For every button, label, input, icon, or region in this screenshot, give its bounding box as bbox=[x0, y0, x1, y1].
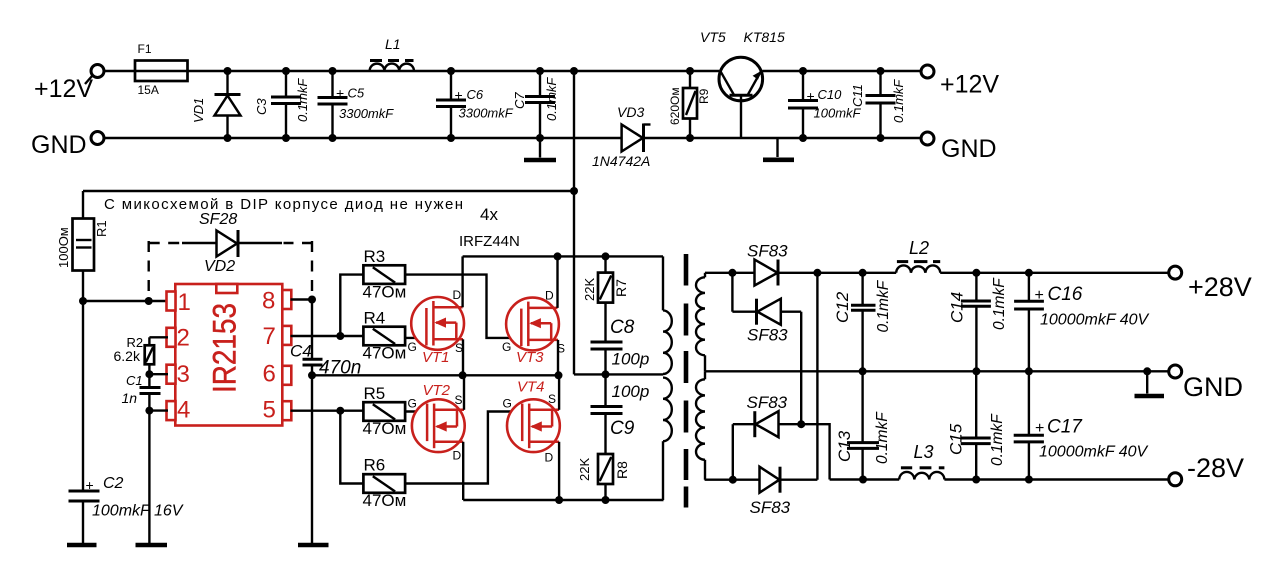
capacitor C5 bbox=[318, 67, 395, 142]
diode VD1 bbox=[191, 67, 241, 142]
svg-text:GND: GND bbox=[941, 135, 997, 163]
svg-text:R6: R6 bbox=[364, 456, 386, 475]
transistor VT4 (mirrored) bbox=[503, 375, 560, 500]
resistor R8 bbox=[577, 454, 630, 500]
terminal GND output bbox=[921, 132, 997, 163]
svg-text:5: 5 bbox=[263, 397, 276, 424]
wire R4 to VT1 gate bbox=[405, 337, 426, 339]
wire branch up to R3 bbox=[340, 275, 363, 336]
wire -28V rail bbox=[830, 476, 1169, 484]
svg-text:2: 2 bbox=[177, 325, 190, 352]
wire top rail left bbox=[188, 70, 720, 72]
wire GND mid rail bbox=[705, 367, 1169, 375]
svg-text:+: + bbox=[455, 87, 463, 103]
svg-text:47Ом: 47Ом bbox=[363, 344, 407, 363]
svg-text:C7: C7 bbox=[512, 92, 527, 109]
wire left rail down to C2 bbox=[82, 301, 84, 491]
terminal +28V bbox=[1169, 266, 1252, 302]
ground stub near C10 bbox=[763, 138, 794, 160]
transistor VT5 KT815 bbox=[700, 29, 785, 138]
svg-text:D: D bbox=[545, 289, 554, 303]
terminal GND output right bbox=[1169, 365, 1243, 402]
wire R5 to VT2 gate bbox=[405, 410, 427, 412]
wire R6 to VT4 gate bbox=[405, 412, 522, 484]
op-amp driver IC U1 IR2153 body bbox=[175, 284, 282, 426]
svg-text:10000mkF 40V: 10000mkF 40V bbox=[1039, 444, 1149, 461]
svg-text:VT3: VT3 bbox=[516, 349, 544, 366]
inductor L1 bbox=[370, 36, 414, 71]
transistor VT3 bbox=[502, 256, 565, 375]
svg-text:1n: 1n bbox=[122, 390, 138, 406]
capacitor C11 bbox=[850, 67, 906, 142]
svg-text:6.2k: 6.2k bbox=[114, 348, 141, 364]
svg-text:47Ом: 47Ом bbox=[363, 491, 407, 510]
wire pin7 to R4 bbox=[291, 332, 364, 340]
terminal GND input bbox=[31, 131, 104, 159]
node VCC / pin1 wire bbox=[79, 297, 168, 305]
resistor R5 bbox=[363, 384, 407, 438]
svg-text:C14: C14 bbox=[948, 292, 967, 323]
svg-text:22K: 22K bbox=[582, 278, 597, 301]
wire +28V rail bbox=[705, 269, 1169, 277]
svg-text:0.1mkF: 0.1mkF bbox=[991, 277, 1008, 330]
dashed bootstrap box bbox=[149, 241, 312, 301]
svg-text:VT1: VT1 bbox=[422, 349, 450, 366]
svg-text:S: S bbox=[548, 392, 556, 406]
svg-text:C10: C10 bbox=[818, 87, 843, 102]
svg-text:0.1mkF: 0.1mkF bbox=[295, 78, 310, 122]
capacitor C14 bbox=[948, 273, 1009, 372]
svg-text:C15: C15 bbox=[947, 423, 966, 455]
svg-text:S: S bbox=[455, 393, 463, 407]
svg-text:D: D bbox=[453, 449, 462, 463]
svg-text:+: + bbox=[1035, 287, 1044, 304]
svg-text:R9: R9 bbox=[697, 88, 711, 104]
IC pin stubs right bbox=[282, 290, 291, 420]
diode VD2 SF28 bbox=[199, 211, 238, 275]
wire bottom GND rail left of VD3 bbox=[104, 137, 622, 139]
diode D4 SF83 bbox=[705, 467, 818, 517]
svg-text:VT2: VT2 bbox=[423, 382, 451, 399]
diode D1 SF83 bbox=[747, 242, 788, 286]
wire pin6 node to ground bbox=[308, 371, 316, 543]
svg-text:15A: 15A bbox=[138, 83, 159, 97]
svg-text:GND: GND bbox=[31, 131, 87, 159]
capacitor C6 bbox=[436, 67, 514, 142]
svg-text:0.1mkF: 0.1mkF bbox=[874, 411, 891, 464]
svg-text:KT815: KT815 bbox=[744, 29, 785, 45]
svg-text:R8: R8 bbox=[614, 461, 630, 479]
transformer secondary winding bbox=[696, 273, 705, 480]
svg-text:IR2153: IR2153 bbox=[207, 303, 243, 393]
svg-text:47Ом: 47Ом bbox=[363, 419, 407, 438]
capacitor C15 bbox=[947, 371, 1007, 479]
capacitor C7 bbox=[512, 67, 559, 158]
wire drain bottom line bbox=[463, 496, 663, 504]
transistor VT2 (mirrored) bbox=[408, 375, 465, 500]
ground under C2 bbox=[67, 543, 97, 548]
resistor R6 bbox=[363, 456, 407, 511]
svg-text:C2: C2 bbox=[103, 475, 124, 492]
resistor R9 bbox=[668, 67, 711, 142]
svg-text:+: + bbox=[807, 88, 815, 104]
transistor VT1 bbox=[408, 256, 465, 375]
diode D3 SF83 bbox=[733, 393, 805, 480]
IC pin numbers bbox=[177, 288, 276, 424]
svg-text:0.1mkF: 0.1mkF bbox=[544, 77, 559, 121]
zener diode VD3 1N4742A bbox=[592, 104, 651, 169]
inductor L3 bbox=[899, 442, 944, 480]
svg-text:SF28: SF28 bbox=[199, 211, 237, 228]
svg-text:620Ом: 620Ом bbox=[668, 87, 682, 125]
svg-text:G: G bbox=[408, 397, 417, 411]
ground under C7 bbox=[524, 158, 556, 163]
svg-text:D: D bbox=[545, 451, 554, 465]
capacitor C13 bbox=[835, 371, 891, 479]
wire primary center tap bbox=[574, 373, 663, 375]
transformer primary winding bbox=[663, 256, 672, 500]
svg-text:VD1: VD1 bbox=[191, 98, 206, 123]
svg-text:R3: R3 bbox=[364, 247, 386, 266]
svg-text:C17: C17 bbox=[1047, 417, 1083, 438]
svg-text:3: 3 bbox=[177, 361, 190, 388]
svg-text:R4: R4 bbox=[364, 309, 386, 328]
svg-text:GND: GND bbox=[1183, 372, 1243, 402]
svg-text:0.1mkF: 0.1mkF bbox=[875, 279, 892, 332]
svg-text:VD3: VD3 bbox=[617, 104, 644, 120]
wire bottom GND rail right of VD3 bbox=[644, 137, 922, 139]
terminal +12V input bbox=[34, 65, 104, 104]
svg-text:VD2: VD2 bbox=[204, 258, 235, 275]
capacitor C2 bbox=[69, 475, 184, 543]
svg-text:C6: C6 bbox=[467, 87, 484, 102]
svg-text:D: D bbox=[453, 288, 462, 302]
ground under pin6 line bbox=[298, 543, 329, 548]
capacitor C17 bbox=[1014, 371, 1149, 479]
svg-text:L2: L2 bbox=[909, 238, 929, 258]
svg-text:R7: R7 bbox=[613, 279, 629, 297]
svg-text:R1: R1 bbox=[94, 220, 109, 237]
svg-text:-28V: -28V bbox=[1187, 453, 1244, 483]
svg-text:1: 1 bbox=[178, 289, 191, 316]
svg-text:C5: C5 bbox=[348, 86, 365, 101]
svg-text:10000mkF 40V: 10000mkF 40V bbox=[1040, 312, 1150, 329]
capacitor C10 bbox=[788, 67, 862, 142]
svg-text:IRFZ44N: IRFZ44N bbox=[459, 233, 520, 250]
svg-text:3300mkF: 3300mkF bbox=[339, 106, 394, 121]
svg-text:100p: 100p bbox=[612, 382, 650, 401]
svg-text:C12: C12 bbox=[833, 291, 852, 323]
svg-text:G: G bbox=[502, 340, 511, 354]
wire negative node to -28V rail bbox=[801, 424, 829, 479]
wire center +12V feed vertical bbox=[570, 67, 578, 374]
wire D4 cathode up to +28V rail bbox=[816, 273, 818, 480]
terminal -28V bbox=[1169, 453, 1244, 486]
ground at output GND bbox=[1135, 371, 1165, 396]
resistor R3 bbox=[363, 247, 407, 302]
wire pin5 to R5 bbox=[291, 407, 364, 415]
svg-text:C4: C4 bbox=[290, 342, 312, 361]
svg-text:C11: C11 bbox=[850, 84, 865, 107]
inductor L2 bbox=[896, 238, 940, 273]
svg-text:100Ом: 100Ом bbox=[56, 227, 71, 268]
wire pin3 bbox=[149, 373, 168, 375]
terminal +12V output bbox=[921, 65, 999, 99]
svg-text:F1: F1 bbox=[138, 42, 152, 56]
svg-text:0.1mkF: 0.1mkF bbox=[989, 413, 1006, 466]
svg-text:S: S bbox=[455, 341, 463, 355]
ground under pin4 line bbox=[136, 543, 168, 548]
resistor R7 bbox=[582, 256, 629, 342]
svg-text:VT4: VT4 bbox=[517, 379, 545, 396]
wire switch node (sources / pin6) bbox=[312, 371, 563, 379]
svg-text:C8: C8 bbox=[610, 317, 635, 338]
svg-text:47Ом: 47Ом bbox=[363, 283, 407, 302]
svg-text:SF83: SF83 bbox=[750, 498, 791, 517]
svg-text:7: 7 bbox=[263, 323, 276, 350]
svg-text:+28V: +28V bbox=[1188, 272, 1252, 302]
svg-text:C13: C13 bbox=[835, 430, 854, 462]
svg-text:6: 6 bbox=[263, 361, 276, 388]
svg-text:C16: C16 bbox=[1048, 284, 1083, 305]
capacitor C12 bbox=[833, 273, 892, 372]
wire pin4 bbox=[149, 409, 168, 411]
wire D2 anode down to D3 node bbox=[800, 312, 802, 425]
svg-text:C9: C9 bbox=[610, 418, 635, 439]
svg-text:8: 8 bbox=[262, 288, 275, 315]
svg-text:4: 4 bbox=[177, 397, 190, 424]
svg-text:SF83: SF83 bbox=[747, 326, 788, 345]
svg-text:22K: 22K bbox=[577, 458, 592, 481]
wire input to fuse bbox=[104, 70, 135, 72]
resistor R2 bbox=[114, 335, 155, 378]
svg-text:+: + bbox=[336, 85, 344, 101]
svg-text:100mkF 16V: 100mkF 16V bbox=[92, 503, 184, 520]
svg-text:R5: R5 bbox=[364, 384, 386, 403]
wire branch down to R6 bbox=[340, 411, 363, 484]
svg-text:1N4742A: 1N4742A bbox=[592, 153, 650, 169]
svg-text:C3: C3 bbox=[254, 98, 269, 115]
svg-text:+12V: +12V bbox=[34, 75, 93, 103]
wire pin8 bbox=[291, 296, 317, 304]
svg-text:+12V: +12V bbox=[940, 71, 999, 99]
svg-text:3300mkF: 3300mkF bbox=[459, 106, 514, 121]
wire VCC feed horizontal bbox=[83, 190, 574, 192]
svg-text:+: + bbox=[1035, 420, 1044, 437]
svg-text:4x: 4x bbox=[480, 205, 498, 224]
wire pin4 node to ground bbox=[148, 411, 150, 543]
svg-text:L3: L3 bbox=[914, 442, 934, 462]
capacitor C3 bbox=[254, 67, 310, 142]
capacitor C4 bbox=[290, 300, 361, 379]
transformer core bbox=[684, 254, 689, 508]
capacitor C16 bbox=[1014, 273, 1149, 372]
wire drain top line bbox=[463, 252, 663, 260]
wire top rail right of VT5 bbox=[762, 70, 921, 72]
wire pin2 bbox=[149, 336, 168, 338]
svg-text:VT5: VT5 bbox=[700, 29, 726, 45]
capacitor C8 bbox=[591, 317, 650, 378]
resistor R1 bbox=[56, 191, 109, 301]
svg-text:0.1mkF: 0.1mkF bbox=[891, 79, 906, 123]
svg-text:SF83: SF83 bbox=[747, 393, 788, 412]
resistor R4 bbox=[363, 309, 407, 363]
svg-text:G: G bbox=[408, 340, 417, 354]
capacitor C9 bbox=[591, 374, 650, 454]
svg-text:SF83: SF83 bbox=[747, 242, 788, 261]
svg-text:S: S bbox=[557, 342, 565, 356]
svg-text:+: + bbox=[86, 477, 94, 493]
svg-text:G: G bbox=[503, 397, 512, 411]
fuse F1 bbox=[135, 42, 188, 97]
svg-text:C1: C1 bbox=[126, 373, 143, 388]
diode D2 SF83 bbox=[732, 273, 801, 345]
capacitor C1 bbox=[122, 373, 161, 415]
svg-text:L1: L1 bbox=[385, 36, 401, 52]
svg-text:С микосхемой в DIP корпусе дио: С микосхемой в DIP корпусе диод не нужен bbox=[104, 196, 463, 213]
IC pin stubs left bbox=[167, 292, 176, 421]
wire R3 to VT3 gate bbox=[405, 275, 521, 338]
svg-text:100p: 100p bbox=[612, 350, 650, 369]
